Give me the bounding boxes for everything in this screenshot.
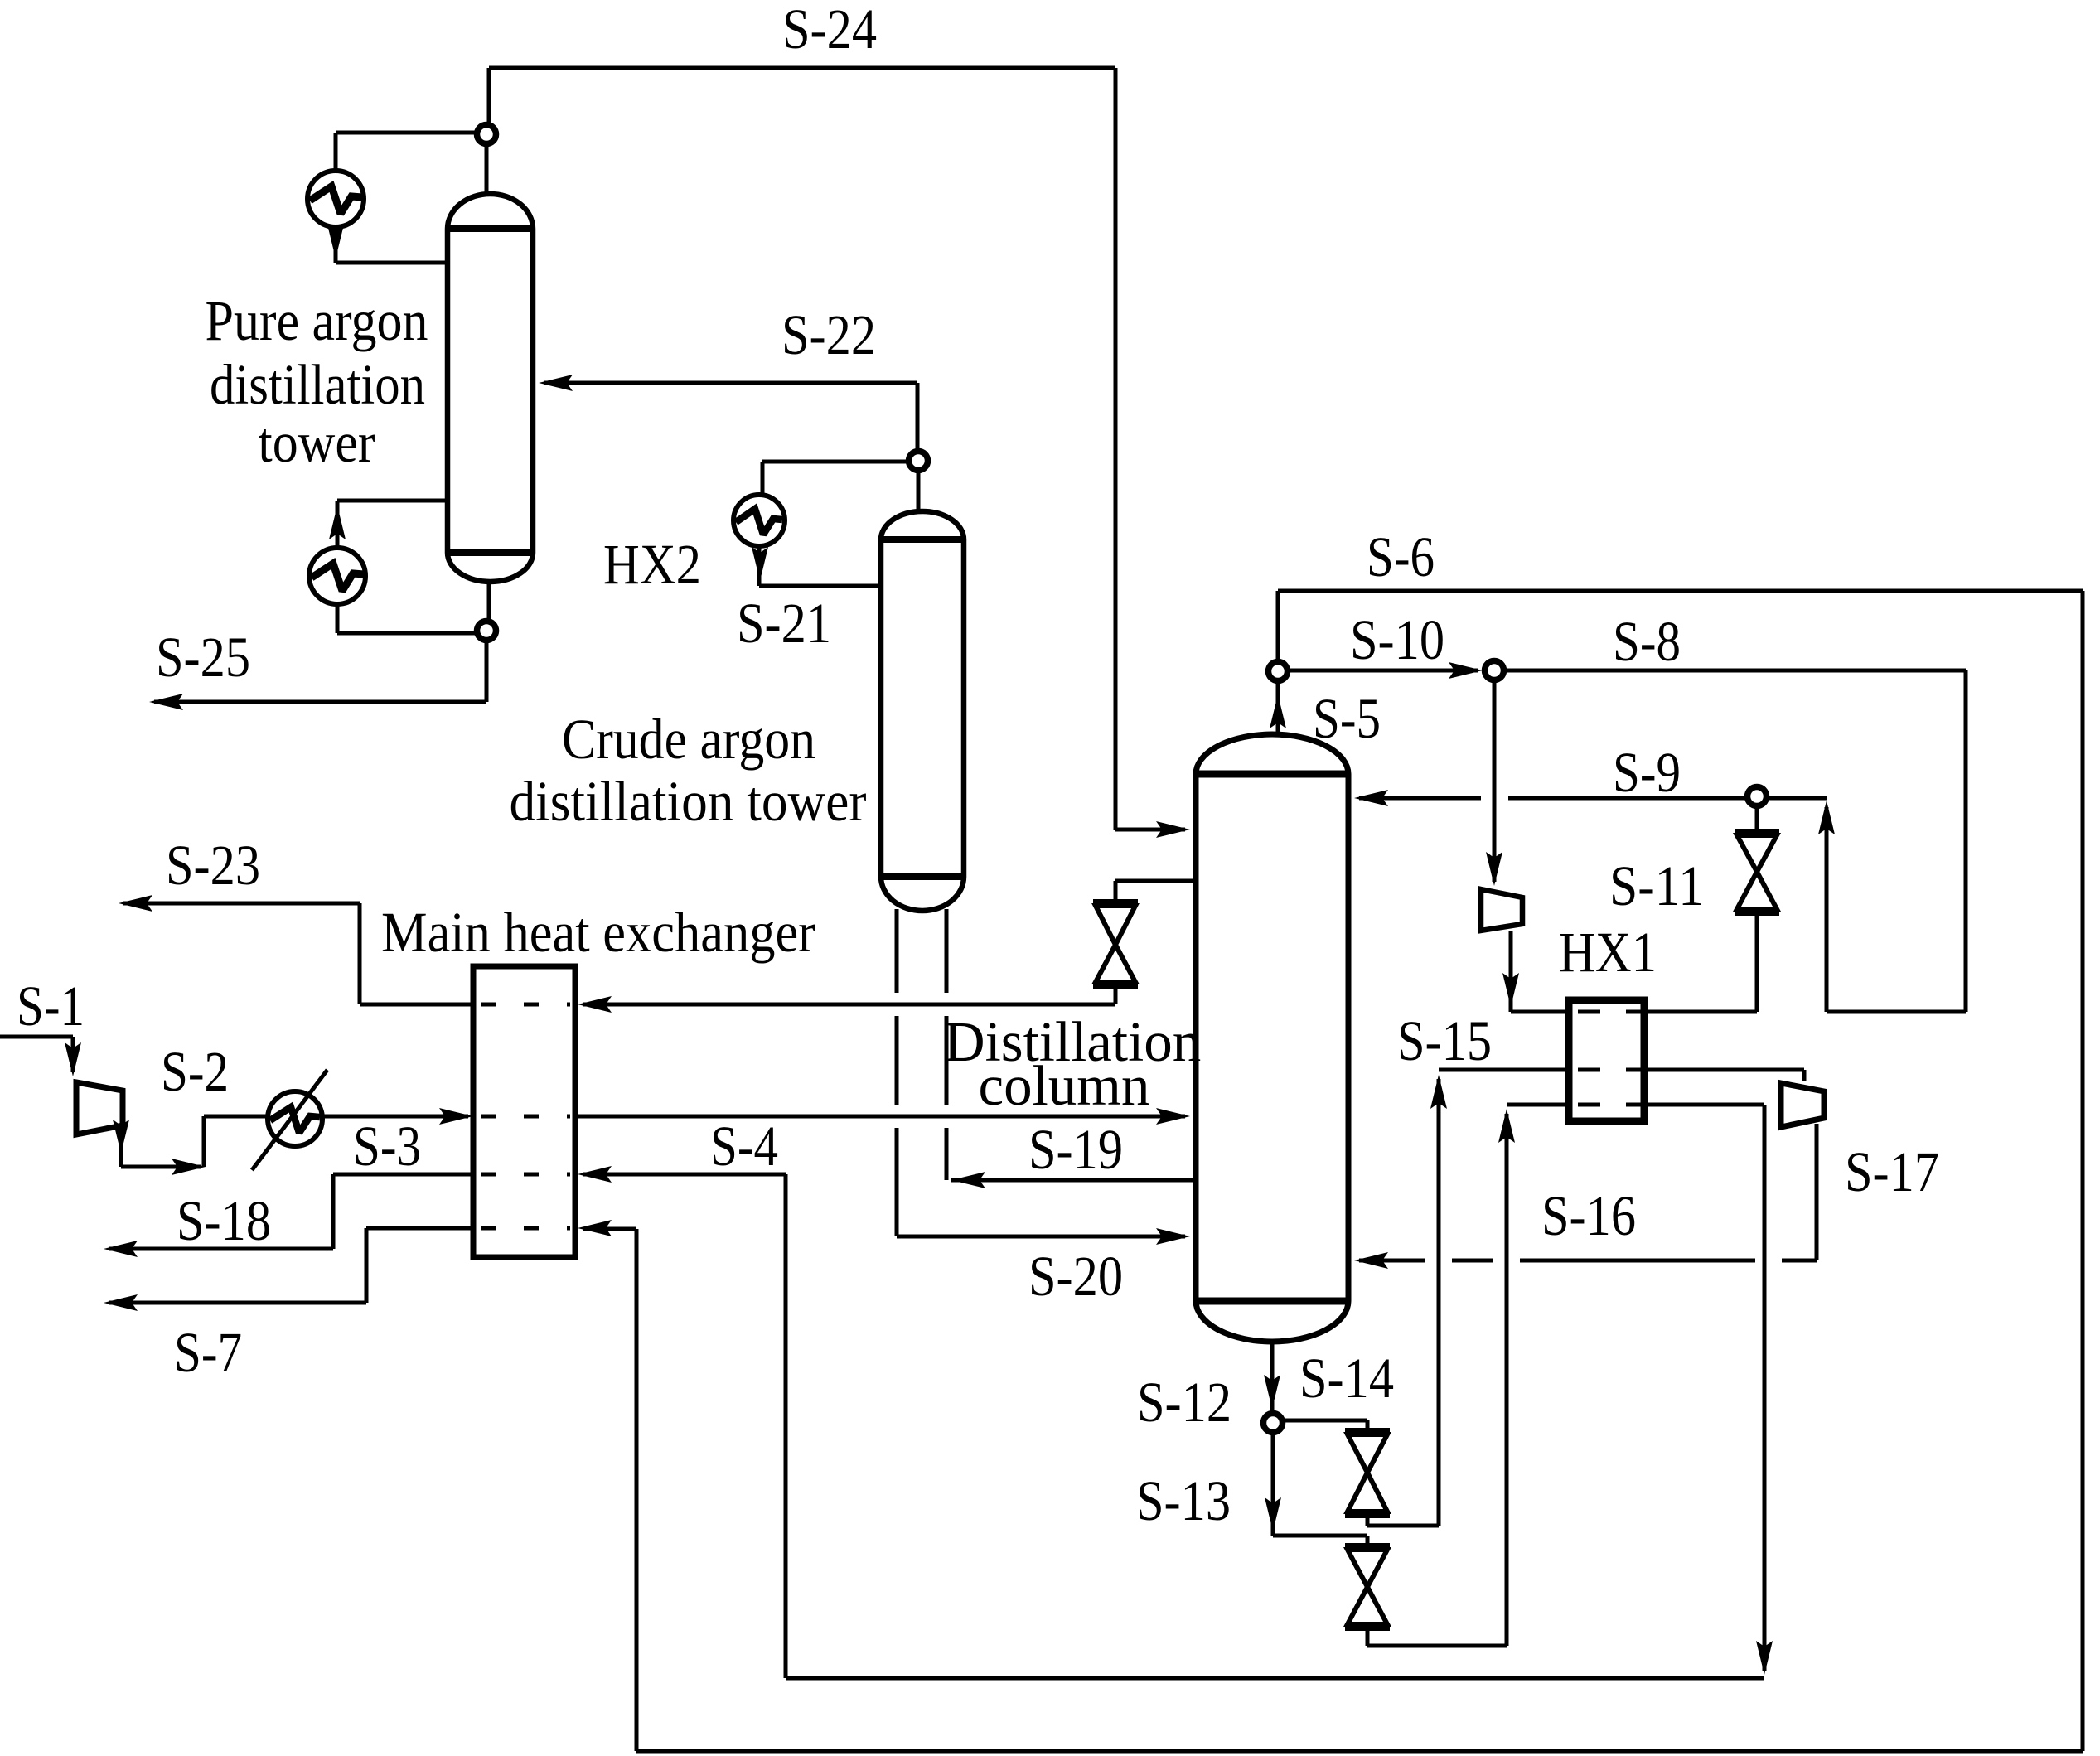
svg-text:S-10: S-10 xyxy=(1350,608,1444,671)
svg-text:S-12: S-12 xyxy=(1137,1371,1231,1434)
node D above column xyxy=(1269,662,1288,681)
svg-text:S-9: S-9 xyxy=(1613,741,1681,804)
heat exchanger HX2 circle xyxy=(733,495,785,546)
node B bottom of pure argon tower xyxy=(477,622,496,641)
svg-text:S-11: S-11 xyxy=(1609,854,1704,917)
wire tower bottom to node B xyxy=(487,581,491,620)
wire node F to valve S-11 xyxy=(1755,807,1759,830)
svg-text:S-6: S-6 xyxy=(1367,525,1435,588)
wire S-24 top horizontal from pure argon tower top to distillation column xyxy=(489,68,1190,838)
wire S-22 into pure argon tower xyxy=(539,375,917,450)
wire S-1 inlet xyxy=(0,1037,81,1076)
wire S-14 node G to valve V3 xyxy=(1284,1420,1367,1429)
svg-text:S-22: S-22 xyxy=(781,303,876,366)
wire S-5 column overhead xyxy=(1270,682,1286,734)
svg-text:S-24: S-24 xyxy=(782,0,877,60)
svg-text:column: column xyxy=(979,1054,1150,1117)
compressor C1 (S-1 feed) xyxy=(76,1082,123,1134)
wire S-16 into column xyxy=(1354,1252,1755,1269)
svg-text:Pure argon: Pure argon xyxy=(206,289,428,352)
valve V2 (S-11) xyxy=(1735,832,1779,912)
wire reboiler loop pure argon tower xyxy=(329,501,476,633)
wire S-23 outlet xyxy=(119,895,473,1004)
wire HX1 row3 right down to bus A xyxy=(1644,1105,1773,1675)
node E xyxy=(1485,661,1504,680)
wire S-6 long loop to MHX row4 xyxy=(578,591,2083,1751)
svg-text:tower: tower xyxy=(259,411,375,474)
wire S-7 outlet xyxy=(104,1228,473,1311)
vessel Pure argon distillation tower xyxy=(445,194,535,582)
wire valve S-11 outlet to HX1 xyxy=(1648,916,1757,1012)
wire expander outlet to HX1 row1 xyxy=(1502,931,1569,1012)
wire S-2 compressor outlet to heater xyxy=(113,1108,473,1175)
svg-text:HX1: HX1 xyxy=(1559,921,1657,984)
svg-text:S-14: S-14 xyxy=(1299,1347,1394,1410)
svg-text:S-17: S-17 xyxy=(1845,1140,1939,1203)
heat exchanger condenser circle (pure argon tower top) xyxy=(307,171,364,227)
wire node E down to expander xyxy=(1486,681,1502,886)
svg-text:S-5: S-5 xyxy=(1313,687,1381,750)
wire S-25 outlet xyxy=(149,641,486,710)
svg-text:S-21: S-21 xyxy=(737,592,831,655)
wire crude tower right downcomer and S-19 from column xyxy=(946,909,1196,1188)
wire S-9 into column xyxy=(1354,790,1827,806)
wire HX1 row3 left with S-16 riser xyxy=(1367,1105,1569,1646)
valve V1 (column side) xyxy=(1093,902,1138,985)
valve V3 (S-14) xyxy=(1345,1431,1390,1515)
svg-text:S-3: S-3 xyxy=(353,1115,421,1178)
node C top of crude argon tower xyxy=(909,452,928,471)
svg-text:distillation: distillation xyxy=(210,353,425,416)
wire HX1 row2 right to expander C3 xyxy=(1644,1070,1804,1081)
node G below column xyxy=(1264,1414,1283,1433)
wire S-13 node G down to valve V4 xyxy=(1265,1434,1367,1544)
svg-text:HX2: HX2 xyxy=(603,533,701,596)
wire valve line from column to main heat exchanger xyxy=(578,881,1196,1013)
svg-text:S-13: S-13 xyxy=(1136,1469,1231,1532)
heater circle with slash on S-3 line xyxy=(252,1070,327,1170)
svg-text:S-23: S-23 xyxy=(166,834,260,897)
node A top of pure argon tower xyxy=(477,125,496,144)
svg-text:S-19: S-19 xyxy=(1028,1118,1123,1181)
vessel Main heat exchanger xyxy=(473,966,575,1257)
svg-text:S-15: S-15 xyxy=(1397,1009,1492,1072)
svg-text:S-8: S-8 xyxy=(1613,610,1681,673)
wire column bottoms outlet xyxy=(1264,1341,1280,1412)
wire S-3 from MHX to distillation column xyxy=(575,1108,1190,1125)
vessel Distillation column xyxy=(1193,734,1351,1342)
wire S-17 expander outlet down to S-16 line xyxy=(1782,1124,1817,1260)
wire condenser loop crude argon tower xyxy=(752,462,907,586)
svg-text:Crude argon: Crude argon xyxy=(562,708,815,771)
svg-text:S-1: S-1 xyxy=(17,975,85,1038)
wire condenser loop pure argon tower xyxy=(327,133,476,263)
expander C2 (S-10) xyxy=(1481,889,1522,931)
svg-text:S-7: S-7 xyxy=(174,1321,242,1384)
wire S-18 outlet xyxy=(104,1174,473,1257)
expander C3 (S-15/S-17) xyxy=(1781,1083,1824,1127)
vessel Crude argon distillation tower xyxy=(878,511,966,911)
vessel HX1 xyxy=(1569,1000,1644,1121)
valve V4 (S-13) xyxy=(1345,1546,1390,1628)
svg-text:S-25: S-25 xyxy=(156,626,250,689)
svg-text:distillation tower: distillation tower xyxy=(510,770,867,833)
svg-text:S-18: S-18 xyxy=(177,1189,271,1252)
wire node to tower dome xyxy=(485,145,489,196)
svg-text:Main heat exchanger: Main heat exchanger xyxy=(381,901,815,964)
svg-text:S-2: S-2 xyxy=(161,1040,229,1103)
wire bus A to S-4 into MHX xyxy=(578,1166,1764,1678)
wire node C to crude tower dome xyxy=(917,472,921,510)
wire S-10 node D to node E xyxy=(1289,662,1483,679)
wire crude tower left downcomer to S-20 xyxy=(897,909,1190,1245)
svg-text:S-16: S-16 xyxy=(1541,1184,1636,1247)
svg-text:S-20: S-20 xyxy=(1028,1245,1123,1308)
svg-text:S-4: S-4 xyxy=(710,1115,778,1178)
wire S-8 loop right and up into S-9 xyxy=(1505,670,1966,1012)
node F on S-9 line xyxy=(1748,787,1767,806)
heat exchanger reboiler circle (pure argon tower bottom) xyxy=(309,548,365,604)
wire S-15 valve V3 outlet up to HX1 row2 xyxy=(1367,1070,1569,1526)
